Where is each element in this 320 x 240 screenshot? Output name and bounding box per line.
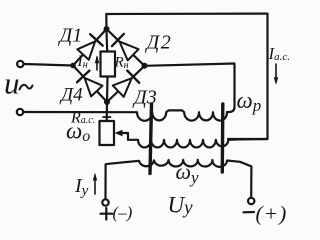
svg-text:(+): (+) — [256, 202, 288, 226]
label minus(plus) — [244, 211, 255, 214]
wire R node to winding wP right end — [145, 64, 235, 113]
winding wP row with wire from U~ bottom terminal — [23, 110, 227, 120]
wire bridge arm B-R — [107, 66, 145, 102]
node B junction — [104, 99, 110, 105]
diode D4 — [77, 71, 103, 97]
wire bridge arm R-T — [107, 29, 145, 66]
winding row 2 from wiper to right vertical — [128, 139, 268, 147]
winding wY row 3 with terminal wires — [106, 160, 252, 200]
svg-text:Д2: Д2 — [145, 32, 173, 54]
potentiometer Ra.c. — [100, 121, 115, 145]
wire bridge arm B-L — [73, 66, 107, 103]
terminal U~ bottom — [17, 109, 23, 115]
terminal minus plus — [248, 198, 254, 204]
arrow IN current — [95, 56, 100, 71]
terminal IY plus — [102, 199, 108, 205]
diode D1 — [77, 34, 102, 60]
svg-text:u: u — [4, 66, 20, 101]
wire U~ top to bridge left node — [24, 64, 73, 66]
resistor RN — [101, 52, 116, 77]
wiper arrow into Ra.c. — [115, 130, 129, 140]
core left — [150, 104, 152, 174]
arrow Ia.c. current — [274, 64, 278, 85]
wire B to potentiometer — [106, 104, 109, 121]
terminal U~ top — [17, 61, 23, 67]
diode D3 — [113, 71, 139, 97]
core right — [221, 104, 225, 172]
arrow IY current — [93, 173, 97, 195]
wire top rail from T to right edge down to row2 — [106, 14, 267, 139]
wire T to RN — [105, 31, 108, 52]
diode D2 — [112, 34, 139, 61]
label plus(minus) — [101, 208, 113, 220]
svg-text:Д1: Д1 — [58, 25, 83, 47]
wire RN to B — [106, 77, 109, 103]
tick on wire — [103, 116, 111, 118]
node T junction — [104, 26, 110, 32]
wire bridge arm L-T — [73, 29, 107, 66]
node R junction — [142, 63, 148, 69]
svg-text:(–): (–) — [113, 203, 133, 222]
node L junction — [70, 63, 76, 69]
svg-text:Д4: Д4 — [59, 85, 83, 106]
